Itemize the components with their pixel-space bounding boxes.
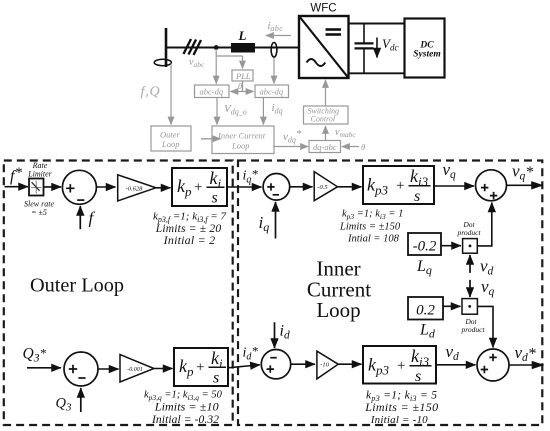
svg-text:Initial = -10: Initial = -10 xyxy=(370,414,428,426)
wire: -0.2 to dot product xyxy=(441,245,461,247)
svg-text:Initial = -0.32: Initial = -0.32 xyxy=(151,414,219,426)
svg-text:Outer Loop: Outer Loop xyxy=(30,275,124,297)
summing junction S4 xyxy=(477,349,509,381)
wire: bus to WFC xyxy=(166,47,299,49)
label v_q xyxy=(443,160,457,181)
Outer Loop block xyxy=(151,126,191,151)
v_d tap arrow into DP1 xyxy=(469,255,471,273)
PLL box xyxy=(232,70,253,81)
dot product DP2 xyxy=(462,299,477,315)
PI controller PI3 xyxy=(363,346,436,385)
label Outer Loop xyxy=(30,275,124,297)
wire: PI3 to sum S4 xyxy=(436,364,476,366)
wire: gain to PI2 xyxy=(338,186,362,188)
Outer Loop dashed boundary xyxy=(4,161,233,426)
svg-text:+: + xyxy=(396,178,404,194)
PI controller PI1 xyxy=(172,168,227,207)
summing junction S5 xyxy=(261,350,290,379)
svg-text:abc-dq: abc-dq xyxy=(260,87,284,97)
svg-text:θ: θ xyxy=(238,81,242,91)
wire: abc-dq to Inner Current Loop xyxy=(216,98,218,125)
svg-text:0.2: 0.2 xyxy=(416,303,435,319)
label WFC xyxy=(310,3,336,15)
v_q tap arrow into DP2 xyxy=(469,280,471,297)
f feedback arrow xyxy=(79,206,81,229)
value label PI2 initial xyxy=(347,234,400,245)
label Dot product (upper) xyxy=(456,220,481,237)
svg-text:Loop: Loop xyxy=(231,141,249,151)
svg-text:Loop: Loop xyxy=(316,298,360,322)
value label PI1 limits xyxy=(155,223,222,235)
Q3 feedback arrow xyxy=(80,388,82,412)
value label PI2 limits xyxy=(339,222,401,233)
label Inner Current Loop xyxy=(307,257,371,323)
gain box -0.2 xyxy=(408,233,441,255)
wire: gain to PI3 xyxy=(338,363,361,365)
label f,Q xyxy=(141,85,161,100)
label Rate Limiter xyxy=(27,161,52,179)
gain block -0.628 xyxy=(118,175,156,201)
label v_abc xyxy=(189,57,205,69)
wire: Outer Loop to Inner Current Loop xyxy=(201,138,221,140)
label i_d xyxy=(280,323,290,342)
svg-text:θ: θ xyxy=(361,142,365,152)
wire: S6 to gain xyxy=(98,368,119,370)
svg-text:-0.628: -0.628 xyxy=(126,185,144,192)
wire: WFC to DC system bottom xyxy=(349,72,405,74)
wire: gain to PI xyxy=(156,187,171,189)
wire: S2 to gain xyxy=(290,186,313,188)
gain box 0.2 xyxy=(408,297,443,320)
wire: abc-dq current to Inner Current Loop xyxy=(262,98,264,125)
wire: node branch to PLL xyxy=(216,56,242,69)
label v_q* xyxy=(512,162,533,183)
wire: CT to abc-dq current xyxy=(273,58,275,84)
wire: PI2 to sum S3 xyxy=(434,185,474,187)
svg-text:-0.001: -0.001 xyxy=(127,367,143,373)
label v_dq* xyxy=(283,128,302,145)
svg-text:PLL: PLL xyxy=(235,71,251,81)
wire: theta to dq-abc xyxy=(342,146,359,148)
summing junction S6 xyxy=(64,352,98,386)
wire: Inner Current Loop to dq-abc xyxy=(274,146,308,148)
label Slew rate = ±5 xyxy=(24,200,54,218)
svg-text:+: + xyxy=(196,360,204,376)
capacitor C xyxy=(355,24,374,74)
label i_dq xyxy=(272,102,283,116)
label Q3 xyxy=(56,396,72,414)
rate limiter RL xyxy=(29,179,44,196)
gain block -0.001 xyxy=(120,355,154,383)
svg-text:Limits = ±150: Limits = ±150 xyxy=(364,400,438,414)
svg-text:s: s xyxy=(414,188,420,205)
svg-text:-10: -10 xyxy=(320,362,329,369)
label L xyxy=(238,28,247,43)
label Q3* xyxy=(23,346,47,365)
wire: f* input xyxy=(5,186,29,188)
wire: PI1 to sum S2 xyxy=(227,186,262,188)
label f* xyxy=(10,165,22,185)
label i_q xyxy=(259,213,270,234)
wire: Q3* input xyxy=(27,367,61,369)
svg-text:Limits = ±150: Limits = ±150 xyxy=(339,222,401,233)
svg-text:Inner Current: Inner Current xyxy=(217,131,266,141)
Switching Control block xyxy=(304,106,349,124)
value label PI4 gains xyxy=(144,390,223,403)
label i_abc xyxy=(268,21,284,33)
value label PI3 limits xyxy=(364,400,438,414)
label L_d xyxy=(419,322,436,341)
wire: 0.2 to dot product xyxy=(443,305,461,307)
svg-text:s: s xyxy=(213,370,219,387)
svg-text:-0.2: -0.2 xyxy=(413,239,437,255)
label v_d (tap) xyxy=(480,257,494,278)
wire: transducer to Outer Loop xyxy=(170,64,172,125)
wire: Switching Control to WFC xyxy=(325,80,327,106)
label V_dc xyxy=(382,36,398,53)
svg-text:f,Q: f,Q xyxy=(141,85,161,100)
wire: PI4 to sum S5 xyxy=(228,365,260,368)
V_dc arrow xyxy=(376,38,378,58)
svg-text:-0.5: -0.5 xyxy=(317,184,328,191)
wire: dq-abc to Switching Control xyxy=(325,126,327,141)
i_d feedback arrow xyxy=(274,322,276,348)
DC System block xyxy=(405,19,445,78)
wire: DP2 to S4 xyxy=(477,306,493,347)
svg-text:Control: Control xyxy=(311,115,336,124)
gain block -0.5 xyxy=(314,172,337,201)
summing junction S3 xyxy=(476,170,507,201)
svg-text:Limiter: Limiter xyxy=(27,170,52,179)
label V_dq_o xyxy=(224,103,247,117)
svg-text:WFC: WFC xyxy=(310,3,336,15)
wire: node to abc-dq left xyxy=(215,49,217,84)
node junction on bus line xyxy=(214,45,219,50)
svg-text:Outer: Outer xyxy=(160,130,181,140)
label v_q (tap) xyxy=(481,277,495,298)
value label PI4 limits xyxy=(154,400,219,414)
label theta xyxy=(238,81,242,91)
wire: S5 to gain xyxy=(291,363,315,365)
value label PI1 gains xyxy=(153,211,226,225)
svg-text:= ±5: = ±5 xyxy=(31,208,47,217)
i_abc direction arrow xyxy=(266,35,291,37)
summing junction S2 xyxy=(263,174,290,201)
dot product DP1 xyxy=(463,239,478,254)
Inner Current Loop block xyxy=(212,126,274,154)
gain block -10 xyxy=(317,351,338,379)
value label PI1 initial xyxy=(163,233,216,247)
Inner Current Loop dashed boundary xyxy=(238,161,542,426)
value label PI3 initial xyxy=(370,414,428,426)
svg-text:s: s xyxy=(415,368,421,385)
svg-text:Loop: Loop xyxy=(161,139,179,149)
breaker hash marks xyxy=(184,39,202,55)
svg-text:+: + xyxy=(397,358,405,374)
svg-text:abc-dq: abc-dq xyxy=(200,87,224,97)
wire: rate limiter to sum xyxy=(44,186,62,188)
wire: sum to gain xyxy=(97,186,116,188)
value label PI4 initial xyxy=(151,414,219,426)
value label PI2 gains xyxy=(342,209,403,222)
wire: PLL theta to both abc-dq xyxy=(231,81,254,92)
label v_d* xyxy=(515,343,536,364)
wire: gain to PI4 xyxy=(154,368,173,370)
current transducer ellipse xyxy=(271,43,277,58)
dq-abc block xyxy=(309,141,341,153)
label i_q* xyxy=(243,167,259,186)
bus bar xyxy=(165,28,168,67)
label v_mabc xyxy=(335,127,356,139)
voltage transducer ellipse xyxy=(154,59,171,65)
WFC converter xyxy=(299,16,349,78)
label Dot product (lower) xyxy=(460,317,485,334)
i_q feedback arrow xyxy=(275,202,277,239)
label i_d* xyxy=(243,344,259,363)
label L_q xyxy=(416,258,432,277)
label theta input xyxy=(361,142,365,152)
svg-text:+: + xyxy=(194,180,202,196)
wire: v_d* output xyxy=(509,364,544,366)
wire: v_q* output xyxy=(507,184,543,186)
svg-text:Initial = 2: Initial = 2 xyxy=(163,233,216,247)
svg-text:product: product xyxy=(456,228,481,237)
svg-text:product: product xyxy=(460,325,485,334)
wire: WFC to DC system top xyxy=(349,23,405,25)
svg-text:Intial = 108: Intial = 108 xyxy=(347,234,400,245)
value label PI3 gains xyxy=(366,390,437,404)
PI controller PI4 xyxy=(174,348,228,387)
label v_d xyxy=(446,342,460,363)
svg-text:L: L xyxy=(238,28,247,43)
summing junction S1 xyxy=(62,170,96,204)
label f xyxy=(89,209,96,228)
PI controller PI2 xyxy=(363,166,434,205)
wire: DP1 to S3 xyxy=(477,203,492,246)
svg-text:System: System xyxy=(413,50,440,60)
abc-dq block (current) xyxy=(255,85,289,98)
abc-dq block (voltage) xyxy=(195,85,230,98)
svg-text:Limits = ±10: Limits = ±10 xyxy=(154,400,219,414)
svg-text:dq-abc: dq-abc xyxy=(313,142,337,152)
inductor L xyxy=(231,43,255,53)
svg-text:s: s xyxy=(212,190,218,207)
